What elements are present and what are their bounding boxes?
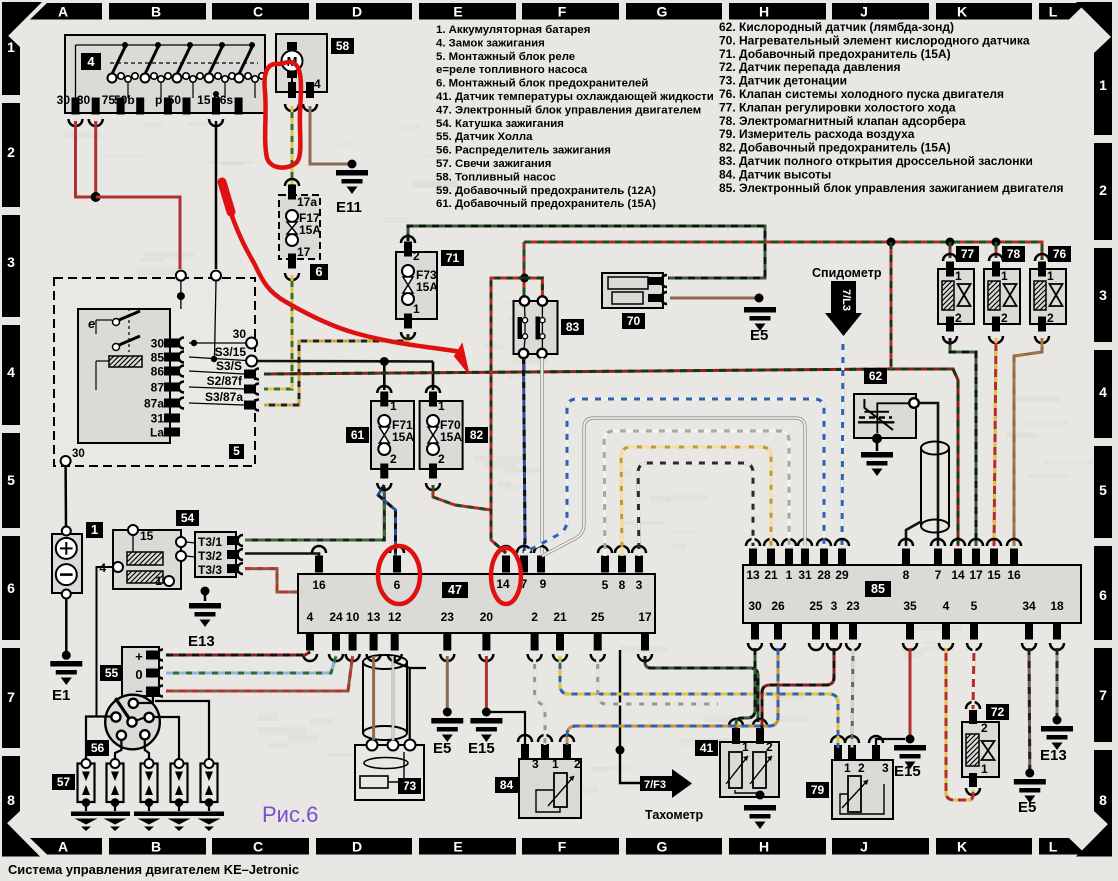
wire battery to ground E1	[65, 598, 68, 652]
svg-text:55: 55	[105, 666, 119, 680]
svg-text:83. Датчик полного открытия др: 83. Датчик полного открытия дроссельной …	[719, 154, 1033, 168]
svg-text:85. Электронный блок управлени: 85. Электронный блок управления зажигани…	[719, 181, 1064, 195]
svg-text:е=реле топливного насоса: е=реле топливного насоса	[436, 64, 588, 76]
spark plug at x=209	[201, 764, 218, 803]
knock sensor 73 box	[355, 745, 424, 800]
svg-text:14: 14	[496, 577, 510, 591]
svg-text:84. Датчик высоты: 84. Датчик высоты	[719, 167, 831, 181]
oxygen sensor 62	[854, 394, 916, 438]
svg-text:4: 4	[314, 77, 321, 91]
air flow meter 79	[832, 760, 893, 819]
svg-text:Спидометр: Спидометр	[812, 266, 882, 280]
wire green/black 85.30 to 41.1	[736, 648, 755, 730]
svg-text:30: 30	[57, 93, 71, 107]
svg-text:58: 58	[336, 39, 350, 53]
svg-text:1: 1	[1047, 269, 1054, 283]
wire blue/yellow 47.21 to 79.1	[560, 656, 838, 748]
rail black relay S3/15 to fuses	[258, 360, 434, 363]
svg-text:G: G	[657, 4, 668, 20]
svg-text:S3/S: S3/S	[216, 359, 242, 373]
svg-text:2: 2	[858, 761, 865, 775]
canister cylinder	[921, 448, 949, 526]
svg-text:3: 3	[831, 599, 838, 613]
svg-text:6: 6	[315, 264, 322, 279]
svg-text:D: D	[352, 839, 362, 855]
relay 5 terminals 30 85 86 87 87a 31 La	[164, 339, 180, 348]
distributor to spark plug wires	[86, 717, 111, 760]
wire black/green T3/1 up to fuse61 out	[245, 487, 384, 540]
ground E15 right	[894, 745, 926, 751]
svg-text:50: 50	[168, 93, 182, 107]
svg-text:3: 3	[532, 757, 539, 771]
wire green/blue hall0 to 47.24	[166, 656, 336, 673]
wire black canister to ECU85 pin8	[906, 521, 922, 546]
wire red/yellow valve78 to ECU85 pin15	[994, 338, 996, 546]
svg-text:23: 23	[441, 610, 455, 624]
svg-text:1: 1	[7, 39, 15, 55]
svg-text:73: 73	[403, 779, 417, 793]
wire red/white 85.5 to 72.2	[973, 648, 974, 709]
svg-text:13: 13	[746, 568, 760, 582]
speedometer arrow 7/L3	[831, 281, 856, 313]
wire blue/white speedometer to ECU85 pin29	[842, 337, 843, 546]
svg-text:76: 76	[1053, 247, 1067, 261]
fuse 61 / F71 15A	[377, 386, 391, 393]
svg-text:Тахометр: Тахометр	[645, 808, 704, 822]
svg-text:30: 30	[72, 448, 85, 460]
block 4 terminals 30 30 75 50b p 50 15 86s	[72, 98, 80, 115]
throttle switch 83	[525, 278, 543, 296]
red annotation blob and curve with arrow	[222, 182, 231, 212]
svg-text:61. Добавочный предохранитель: 61. Добавочный предохранитель (15А)	[436, 198, 656, 210]
svg-text:K: K	[957, 4, 967, 20]
svg-text:e: e	[88, 316, 95, 331]
svg-text:70: 70	[627, 314, 641, 328]
svg-text:K: K	[957, 839, 967, 855]
svg-text:10: 10	[346, 610, 360, 624]
svg-text:2: 2	[438, 452, 445, 466]
wire black 47.12 to 73	[395, 656, 410, 740]
svg-text:71: 71	[446, 251, 460, 265]
red annotation loop around pump wire	[265, 62, 301, 168]
wire red/green to ECU47 pin 14	[491, 278, 525, 553]
wire black 79.3 to E15 node	[876, 739, 905, 748]
hall link to distributor	[152, 694, 154, 703]
ground E5 right of 70	[744, 307, 776, 313]
svg-text:21: 21	[553, 610, 567, 624]
svg-text:1: 1	[438, 399, 445, 413]
svg-text:7/F3: 7/F3	[644, 779, 666, 791]
relay plate 5 (dashed box)	[54, 278, 255, 466]
svg-text:20: 20	[480, 610, 494, 624]
svg-text:3: 3	[7, 254, 15, 270]
valve 77	[938, 269, 974, 324]
svg-text:54. Катушка зажигания: 54. Катушка зажигания	[436, 118, 564, 130]
svg-text:15A: 15A	[416, 280, 438, 294]
svg-text:86s: 86s	[213, 93, 233, 107]
distributor 56	[105, 695, 160, 750]
wire blue/white bundle 47.7 to 85.28	[524, 399, 824, 553]
svg-text:87: 87	[151, 381, 165, 395]
red annotation circle around 47 pin 6	[378, 546, 420, 604]
svg-text:34: 34	[1022, 599, 1036, 613]
coolant temp sensor 41	[720, 742, 779, 797]
svg-text:1: 1	[1099, 77, 1107, 93]
svg-text:2: 2	[574, 757, 581, 771]
wire orange/yellow 47.8 to 85.21	[621, 447, 771, 556]
svg-text:15A: 15A	[440, 430, 462, 444]
svg-text:82: 82	[470, 428, 484, 442]
svg-text:41: 41	[700, 741, 714, 755]
wire gray 47.25 stub	[598, 656, 718, 704]
svg-text:15A: 15A	[392, 430, 414, 444]
svg-text:E13: E13	[188, 633, 215, 650]
svg-text:16: 16	[312, 578, 326, 592]
svg-text:F: F	[558, 839, 567, 855]
svg-text:H: H	[759, 4, 769, 20]
wire red/yellow 85.4 to 72.1	[946, 648, 973, 800]
svg-text:L: L	[1049, 839, 1058, 855]
wire gray/black 85.18 to ground E13	[1056, 648, 1059, 717]
svg-text:A: A	[58, 839, 68, 855]
svg-text:S3/15: S3/15	[215, 345, 247, 359]
svg-text:78. Электромагнитный клапан ад: 78. Электромагнитный клапан адсорбера	[719, 114, 966, 128]
svg-text:1: 1	[1001, 269, 1008, 283]
svg-text:78: 78	[1007, 247, 1021, 261]
svg-text:p: p	[155, 93, 162, 107]
svg-text:7: 7	[1099, 687, 1107, 703]
svg-text:6: 6	[1099, 587, 1107, 603]
wire gray/white 47.5 to 85.1	[604, 431, 789, 556]
wire gray 47.12b to 73	[392, 656, 395, 740]
svg-text:12: 12	[388, 610, 402, 624]
svg-text:71. Добавочный предохранитель: 71. Добавочный предохранитель (15А)	[719, 47, 951, 61]
wire green/black fuse71 to heater 70	[408, 226, 765, 278]
svg-text:16: 16	[1007, 568, 1021, 582]
svg-text:17a: 17a	[297, 195, 317, 209]
relay coil	[109, 356, 142, 367]
svg-text:77. Клапан регулировки холосто: 77. Клапан регулировки холостого хода	[719, 100, 956, 114]
svg-text:6: 6	[394, 578, 401, 592]
svg-text:1: 1	[155, 574, 162, 588]
ECU 47 engine control unit	[298, 574, 655, 633]
svg-text:31: 31	[151, 412, 165, 426]
relay 5 bottom 30 node	[61, 456, 71, 466]
wire blue/black fuse61 to ECU47 pin 6	[378, 485, 396, 556]
wire brown/red hall- to 47.10	[166, 656, 353, 691]
svg-text:31: 31	[798, 568, 812, 582]
wire green/yellow fuse 17 down to relay S3/S	[264, 275, 292, 389]
svg-text:7: 7	[7, 689, 15, 705]
wire brown/black 85.34 to ground E5	[1028, 648, 1032, 771]
pressure sensor 72	[962, 722, 999, 777]
svg-text:E15: E15	[468, 740, 495, 757]
svg-text:84: 84	[500, 778, 514, 792]
svg-text:S2/87f: S2/87f	[207, 374, 243, 388]
svg-text:S3/87a: S3/87a	[205, 390, 243, 404]
svg-text:76. Клапан системы холодного п: 76. Клапан системы холодного пуска двига…	[719, 87, 1004, 101]
coil connector T3	[195, 532, 236, 577]
svg-text:21: 21	[764, 568, 778, 582]
svg-text:61: 61	[351, 428, 365, 442]
svg-text:85: 85	[151, 351, 165, 365]
svg-text:4: 4	[943, 599, 950, 613]
ground E11	[348, 160, 357, 169]
svg-text:17: 17	[969, 568, 983, 582]
wire gray 47.2 to 84.1	[535, 656, 545, 745]
fuel pump relay e inner box	[78, 309, 170, 443]
svg-text:41. Датчик температуры охлажда: 41. Датчик температуры охлаждающей жидко…	[436, 91, 714, 103]
wire black/white 47.3 to 85.13	[638, 463, 753, 556]
svg-text:56: 56	[91, 741, 105, 755]
svg-text:30: 30	[77, 93, 91, 107]
svg-text:T3/1: T3/1	[198, 535, 222, 549]
scan background texture (not labeled elements)	[188, 122, 209, 126]
svg-text:1: 1	[390, 399, 397, 413]
svg-text:85: 85	[871, 582, 885, 596]
wire yellow/blue 85.26 to 84.2	[567, 648, 778, 745]
svg-text:30: 30	[233, 327, 247, 341]
svg-text:B: B	[151, 4, 161, 20]
svg-text:1: 1	[786, 568, 793, 582]
svg-text:57. Свечи зажигания: 57. Свечи зажигания	[436, 158, 551, 170]
svg-text:3: 3	[636, 578, 643, 592]
valve 78	[984, 269, 1020, 324]
wire brown pump 4 to ground E11	[310, 106, 348, 164]
svg-text:13: 13	[367, 610, 381, 624]
svg-text:+: +	[135, 649, 143, 664]
svg-text:2: 2	[955, 311, 962, 325]
svg-text:E: E	[453, 839, 462, 855]
svg-text:58. Топливный насос: 58. Топливный насос	[436, 171, 556, 183]
wire black to tachometer	[620, 650, 640, 783]
wire red/black 85.3 to 41.2	[762, 648, 834, 730]
wire red/green fuse82 tail	[433, 485, 491, 510]
svg-text:15: 15	[197, 93, 211, 107]
wire white pair 47.9 to 85.31	[542, 418, 805, 556]
wire red terminal 30 feeds	[76, 121, 96, 197]
relay 5 right-side terminals	[189, 342, 246, 344]
svg-text:35: 35	[903, 599, 917, 613]
fuse 82 / F70 15A	[426, 386, 440, 393]
svg-text:E15: E15	[894, 763, 921, 780]
wire yellow/black fuse71 pin1 to relay S3/87a	[264, 334, 408, 405]
ground E5 mid	[431, 718, 463, 724]
svg-text:50b: 50b	[114, 93, 135, 107]
svg-text:47. Электронный блок управлени: 47. Электронный блок управления двигател…	[436, 104, 701, 116]
svg-text:79. Измеритель расхода воздуха: 79. Измеритель расхода воздуха	[719, 127, 915, 141]
svg-text:C: C	[253, 839, 263, 855]
svg-text:18: 18	[1050, 599, 1064, 613]
wire coil 4 to distributor	[97, 567, 114, 717]
wire brown/red T3/3 stub	[245, 569, 297, 592]
svg-text:14: 14	[951, 568, 965, 582]
spark plugs 57	[52, 774, 75, 790]
svg-text:15A: 15A	[299, 223, 321, 237]
svg-text:1: 1	[742, 740, 749, 754]
svg-text:26: 26	[771, 599, 785, 613]
svg-text:D: D	[352, 4, 362, 20]
svg-text:62: 62	[869, 369, 883, 383]
svg-text:H: H	[759, 839, 769, 855]
svg-text:70. Нагревательный элемент кис: 70. Нагревательный элемент кислородного …	[719, 33, 1030, 47]
svg-text:8: 8	[1099, 792, 1107, 808]
ignition coil 54	[113, 530, 181, 589]
svg-text:4: 4	[307, 610, 314, 624]
wire brown valve76 to ECU85 pin16	[1014, 338, 1042, 546]
svg-text:2: 2	[7, 144, 15, 160]
valve 76	[1030, 269, 1066, 324]
svg-text:57: 57	[57, 775, 71, 789]
wire red/green riser to top rail R1	[523, 242, 526, 373]
svg-text:G: G	[657, 839, 668, 855]
svg-text:30: 30	[151, 337, 165, 351]
svg-text:72: 72	[991, 705, 1005, 719]
svg-text:30: 30	[748, 599, 762, 613]
svg-text:7/L3: 7/L3	[840, 289, 852, 311]
battery 1	[52, 534, 82, 593]
svg-text:4: 4	[1099, 384, 1107, 400]
svg-text:5: 5	[1099, 482, 1107, 498]
ground under 41	[744, 805, 776, 811]
svg-text:5: 5	[233, 444, 240, 458]
border frame	[30, 3, 102, 20]
svg-text:73. Датчик детонации: 73. Датчик детонации	[719, 74, 847, 88]
svg-text:55. Датчик Холла: 55. Датчик Холла	[436, 131, 533, 143]
spark plug at x=86	[78, 764, 95, 803]
svg-text:E5: E5	[750, 327, 768, 344]
wire white pair throttle to ECU47 pin 9	[540, 358, 544, 553]
spark plug at x=179	[171, 764, 188, 803]
svg-text:28: 28	[817, 568, 831, 582]
svg-text:79: 79	[811, 783, 825, 797]
svg-text:J: J	[860, 4, 868, 20]
wire red/black hall+ to 47.4	[166, 652, 310, 655]
svg-text:3: 3	[1099, 287, 1107, 303]
svg-text:17: 17	[638, 610, 652, 624]
ground E13 right	[1041, 726, 1073, 732]
svg-text:6: 6	[7, 580, 15, 596]
svg-text:0: 0	[135, 667, 142, 682]
svg-text:1: 1	[844, 761, 851, 775]
svg-text:87a: 87a	[144, 397, 164, 411]
svg-text:24: 24	[329, 610, 343, 624]
connector arcs under block 4	[69, 119, 83, 126]
svg-text:5. Монтажный блок реле: 5. Монтажный блок реле	[436, 51, 575, 63]
wire black terminal 15 to relay	[215, 121, 218, 269]
svg-text:1. Аккумуляторная батарея: 1. Аккумуляторная батарея	[436, 24, 590, 36]
svg-text:F: F	[558, 4, 567, 20]
svg-text:72. Датчик перепада давления: 72. Датчик перепада давления	[719, 60, 901, 74]
svg-text:8: 8	[7, 792, 15, 808]
svg-text:62. Кислородный датчик (лямбда: 62. Кислородный датчик (лямбда-зонд)	[719, 20, 954, 34]
svg-text:Рис.6: Рис.6	[262, 802, 318, 827]
ground E13 near coil	[201, 587, 210, 596]
wire green/black valve77 to ECU85 pin17	[950, 338, 976, 546]
svg-text:5: 5	[7, 472, 15, 488]
svg-text:1: 1	[981, 762, 988, 776]
svg-text:A: A	[58, 4, 68, 20]
wire red 47.20 to ground E15	[485, 656, 488, 708]
svg-text:2: 2	[766, 740, 773, 754]
altitude sensor 84	[519, 759, 581, 818]
fuel pump 58	[276, 34, 327, 92]
svg-text:L: L	[1049, 4, 1058, 20]
svg-text:59. Добавочный предохранитель: 59. Добавочный предохранитель (12А)	[436, 185, 656, 197]
wire brown 47.13 to 73	[372, 656, 375, 740]
svg-text:15: 15	[140, 529, 154, 543]
svg-text:B: B	[151, 839, 161, 855]
svg-text:9: 9	[540, 577, 547, 591]
svg-text:2: 2	[1001, 311, 1008, 325]
svg-text:4: 4	[87, 54, 95, 69]
svg-text:6. Монтажный блок предохраните: 6. Монтажный блок предохранителей	[436, 78, 648, 90]
ground under 62	[872, 434, 882, 444]
svg-text:8: 8	[619, 578, 626, 592]
svg-text:E1: E1	[52, 687, 70, 704]
svg-text:E: E	[453, 4, 462, 20]
svg-text:47: 47	[448, 583, 462, 597]
fuse block 6 / F17 15A	[279, 195, 320, 259]
svg-text:2: 2	[981, 721, 988, 735]
wire black E15 to 84.3	[486, 712, 525, 745]
svg-text:E11: E11	[336, 199, 362, 216]
oxygen sensor heater 70	[602, 273, 663, 308]
wire brown heater to ground E5	[670, 297, 755, 300]
svg-text:C: C	[253, 4, 263, 20]
relay e switches	[113, 319, 120, 326]
svg-text:77: 77	[961, 247, 975, 261]
svg-text:86: 86	[151, 365, 165, 379]
svg-text:1: 1	[552, 757, 559, 771]
svg-text:E5: E5	[1018, 799, 1036, 816]
svg-text:T3/3: T3/3	[198, 563, 222, 577]
svg-text:La: La	[150, 426, 164, 440]
ignition switch block 4	[65, 35, 265, 113]
wire green/gray 85.23 to 79.2	[852, 648, 853, 748]
svg-text:2: 2	[1047, 311, 1054, 325]
svg-text:15: 15	[987, 568, 1001, 582]
svg-text:1: 1	[91, 522, 98, 537]
wire black 62 to ECU85 pin7	[919, 403, 938, 546]
svg-text:8: 8	[903, 568, 910, 582]
svg-text:3: 3	[882, 761, 889, 775]
svg-text:E13: E13	[1040, 747, 1067, 764]
svg-text:23: 23	[846, 599, 860, 613]
svg-text:25: 25	[591, 610, 605, 624]
relay 5 top connector circles	[176, 271, 186, 281]
svg-text:Система управления двигателем: Система управления двигателем KE–Jetroni…	[8, 862, 299, 877]
svg-text:5: 5	[971, 599, 978, 613]
fuse 71 / F73 15A	[396, 252, 437, 319]
svg-text:5: 5	[602, 578, 609, 592]
wire battery to relay 30 node	[64, 466, 67, 527]
svg-text:7: 7	[935, 568, 942, 582]
knock sensor cylinder	[363, 662, 407, 733]
svg-text:J: J	[860, 839, 868, 855]
svg-text:29: 29	[835, 568, 849, 582]
svg-text:1: 1	[955, 269, 962, 283]
svg-text:4: 4	[7, 364, 15, 380]
svg-text:4. Замок зажигания: 4. Замок зажигания	[436, 37, 545, 49]
spark plug at x=149	[141, 764, 158, 803]
ECU 85 ignition control unit	[743, 565, 1081, 623]
ground E5 bottom right	[1014, 779, 1046, 785]
wire green/yellow pump to fuse 17a	[291, 106, 294, 186]
ground E15 mid	[470, 718, 502, 724]
rail red/black S2/87f long horizontal	[264, 369, 958, 546]
svg-text:T3/2: T3/2	[198, 549, 222, 563]
